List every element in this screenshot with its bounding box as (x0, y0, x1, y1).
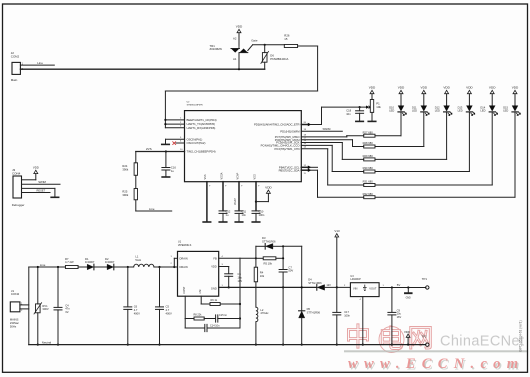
svg-text:D14: D14 (480, 105, 485, 109)
wire LED D13 cathode (375, 113, 469, 172)
wire Line from J2 pin2 to triac/D6 (20, 68, 264, 70)
svg-text:STTH1R06: STTH1R06 (262, 239, 276, 243)
svg-text:D3: D3 (262, 236, 266, 240)
svg-text:Line: Line (37, 61, 43, 65)
wire R4 to L2 (255, 282, 257, 307)
pin OSCOUT with red cross (172, 141, 184, 145)
pin name VSS vertical (204, 174, 207, 179)
svg-text:VDD: VDD (265, 185, 272, 189)
pin name VDD vertical (253, 174, 256, 179)
svg-text:LED: LED (435, 109, 440, 113)
svg-text:10u: 10u (397, 312, 402, 316)
wire J1 pins to rails (20, 267, 29, 345)
svg-text:LED: LED (389, 109, 394, 113)
svg-text:400V: 400V (134, 311, 140, 315)
svg-text:PC4(HS)/TIM1_CH4/CLK_CCO: PC4(HS)/TIM1_CH4/CLK_CCO (261, 144, 300, 148)
capacitor C16 (162, 152, 176, 178)
pin names U3 (353, 285, 377, 290)
wire triac A1 to Line wire (238, 53, 240, 71)
wire U3 output 5V (379, 283, 426, 288)
svg-text:Neutral: Neutral (42, 341, 52, 345)
wire U1 GND rail (219, 285, 317, 288)
svg-text:5V: 5V (397, 283, 401, 287)
resistor R26 (284, 34, 297, 48)
svg-text:ZVS: ZVS (146, 147, 152, 151)
net stub SWIM (301, 127, 342, 131)
svg-text:400V: 400V (166, 311, 172, 315)
svg-text:100n: 100n (344, 313, 350, 317)
svg-text:C11: C11 (242, 209, 247, 213)
svg-text:中: 中 (345, 322, 371, 352)
svg-text:SWIM: SWIM (323, 127, 331, 131)
svg-text:A1: A1 (233, 57, 237, 61)
wire ZVS corner (135, 152, 137, 163)
wire pin16 to R29 (301, 140, 363, 159)
svg-text:TIM2_CH1(BEEP/PD4): TIM2_CH1(BEEP/PD4) (187, 150, 216, 154)
pin name VDDA vertical (220, 172, 223, 179)
capacitor C7 (279, 265, 293, 345)
svg-text:Debugger: Debugger (12, 203, 25, 207)
svg-text:D13: D13 (458, 105, 463, 109)
svg-text:TP2: TP2 (422, 335, 428, 339)
watermark chinese characters 中电网 (345, 322, 434, 354)
transil D6 (261, 45, 289, 69)
svg-text:Main: Main (11, 78, 18, 82)
power flag VDD (triac A2) (236, 25, 243, 46)
svg-text:L4949CP: L4949CP (350, 278, 361, 281)
capacitor C5 (156, 267, 172, 346)
wire D2 to L1 (115, 266, 134, 268)
svg-text:STTH1R06: STTH1R06 (308, 281, 322, 285)
svg-text:VDD: VDD (33, 166, 39, 170)
svg-text:VDD: VDD (236, 25, 243, 29)
power flag VDD (LED D13) (466, 86, 473, 106)
svg-text:C12: C12 (226, 209, 231, 213)
svg-text:网: 网 (407, 323, 433, 353)
resistor R28 (363, 141, 375, 148)
svg-text:STM8S103F3P6: STM8S103F3P6 (187, 105, 204, 107)
wire U1 FB (219, 256, 240, 259)
svg-text:Gate: Gate (251, 39, 258, 43)
wire J3 pin1 to VDD (22, 166, 39, 180)
svg-text:12V: 12V (326, 284, 331, 287)
svg-text:C15 1n: C15 1n (219, 314, 228, 317)
svg-text:R30 680: R30 680 (363, 166, 374, 170)
svg-text:10k: 10k (376, 105, 381, 109)
triac TR1 (210, 44, 248, 53)
wire U1 bottom pin LIM (201, 296, 210, 304)
svg-text:VDD: VDD (398, 86, 405, 90)
svg-text:CON2: CON2 (11, 55, 20, 59)
capacitor C12 (219, 182, 231, 222)
svg-text:47n: 47n (65, 307, 70, 311)
svg-text:CONT: CONT (183, 286, 186, 294)
LED D14 (480, 105, 497, 115)
resistor R5 (256, 257, 283, 266)
svg-text:1N4007: 1N4007 (105, 260, 115, 264)
svg-text:VDD: VDD (466, 86, 473, 90)
svg-text:VDD: VDD (443, 86, 450, 90)
regulator U3 box (350, 275, 379, 296)
svg-text:GND: GND (406, 297, 411, 299)
wire ADC pin to potentiometer wiper (301, 106, 369, 127)
capacitor C4 (54, 266, 70, 346)
svg-text:MAINS: MAINS (10, 318, 19, 322)
wire L1 to U1 drain (154, 256, 178, 268)
power flag VDD (LED D10) (398, 86, 405, 106)
svg-text:C18: C18 (346, 109, 351, 113)
svg-text:VSS: VSS (204, 174, 207, 179)
svg-text:VOUT: VOUT (369, 286, 377, 290)
pin name VCAP vertical (236, 172, 239, 179)
power flag V13 (334, 229, 340, 288)
svg-text:DRAIN: DRAIN (180, 265, 188, 269)
wire J3 pin3 to ground (22, 188, 59, 197)
wire MCU pin3 UART1_RX (165, 125, 184, 127)
connector J1 CON2 mains (10, 289, 23, 329)
svg-text:Line: Line (40, 263, 46, 267)
label A2 (233, 37, 237, 41)
wire D3/R5 right junction (282, 245, 302, 269)
svg-text:R9 1k: R9 1k (211, 299, 218, 302)
svg-text:Z0109MN: Z0109MN (210, 47, 222, 51)
svg-text:STTH1R06: STTH1R06 (307, 310, 321, 314)
svg-text:VDD: VDD (421, 86, 428, 90)
power flag VDD (output) (404, 330, 410, 346)
svg-text:PB5(T)/I2C_SDA: PB5(T)/I2C_SDA (279, 168, 300, 172)
svg-text:D5: D5 (307, 307, 311, 311)
resistor R27 (363, 130, 375, 137)
power flag VDD (LED D15) (512, 86, 519, 106)
wire D1 to D2 (95, 266, 107, 268)
label A1 (233, 57, 237, 61)
svg-text:D15: D15 (503, 105, 508, 109)
svg-text:R28 680: R28 680 (363, 141, 374, 145)
svg-text:UART1_RX(AIN6/PD6): UART1_RX(AIN6/PD6) (187, 126, 216, 130)
wire VSS pin to ground (203, 182, 211, 222)
resistor R32 (363, 192, 375, 199)
wire between R24 R25 (135, 175, 137, 188)
SMPS IC U1 VIPer06 box (178, 241, 219, 297)
svg-text:10k: 10k (260, 274, 265, 278)
resistor R31 (363, 180, 375, 187)
wire R9 to FB node (220, 258, 241, 328)
svg-text:C5: C5 (166, 305, 170, 309)
capacitor C14 (series bottom) (185, 319, 240, 332)
svg-text:VDD: VDD (211, 265, 217, 269)
svg-text:C17: C17 (344, 310, 349, 314)
svg-text:VDD: VDD (512, 86, 519, 90)
svg-text:PC3(HS)/TIM1_CH3: PC3(HS)/TIM1_CH3 (274, 147, 300, 151)
svg-text:L2: L2 (260, 308, 263, 312)
potentiometer P1 (367, 100, 381, 113)
resistor R29 (363, 154, 375, 161)
wire LED D15 cathode (375, 113, 515, 198)
svg-text:R5 10k: R5 10k (264, 262, 273, 266)
svg-text:C7: C7 (288, 265, 292, 269)
svg-text:R8 22k: R8 22k (194, 314, 203, 317)
svg-text:15: 15 (284, 37, 288, 41)
svg-text:VDD: VDD (489, 86, 496, 90)
wire LED D12 cathode (375, 113, 447, 160)
svg-text:R25: R25 (122, 190, 127, 194)
svg-text:10n: 10n (346, 112, 351, 116)
wire P1 to ground (368, 112, 376, 121)
varistor RV1 (34, 266, 49, 346)
wire R7 to D1 (78, 266, 87, 268)
svg-text:VDD: VDD (369, 86, 376, 90)
wire J3 pin2 SWIM (22, 180, 61, 184)
svg-text:10n: 10n (242, 213, 247, 217)
wire LED D11 cathode (375, 113, 424, 147)
pin names OSC (187, 137, 206, 145)
svg-text:16V: 16V (397, 315, 402, 319)
svg-text:4.7: 4.7 (134, 308, 138, 312)
junction gate/D6 (264, 44, 266, 46)
power flag VDD (LED D14) (489, 86, 496, 106)
MCU U2 STM8S103F3P6 box (185, 102, 302, 182)
svg-text:LED: LED (480, 109, 485, 113)
power flag VDD (P1) (369, 86, 376, 100)
svg-text:R4: R4 (260, 271, 264, 275)
LED D11 (412, 105, 429, 115)
svg-text:VIPER06LS: VIPER06LS (178, 244, 192, 247)
capacitor C15 (series) (204, 314, 240, 322)
diode D5 STTH1R06 (299, 246, 321, 345)
power flag VDD (LED D12) (443, 86, 450, 106)
svg-text:230Vac: 230Vac (10, 321, 20, 325)
svg-text:D4: D4 (308, 278, 312, 282)
svg-text:D11: D11 (412, 105, 417, 109)
svg-text:470uH: 470uH (260, 311, 268, 315)
wire LED D14 cathode (375, 113, 492, 186)
svg-text:X2: X2 (65, 310, 69, 314)
test point TP1 (422, 277, 429, 289)
wire I2C_SDA pin to R32 (301, 168, 363, 197)
capacitor C9 (388, 286, 402, 345)
LED D10 (389, 105, 406, 115)
svg-text:SWIM: SWIM (38, 180, 46, 184)
svg-text:50V: 50V (288, 269, 293, 273)
svg-text:V13: V13 (334, 229, 340, 233)
svg-text:C10: C10 (259, 209, 264, 213)
connector J2 CON2 (Main line input) (11, 51, 24, 82)
svg-text:LED: LED (458, 109, 463, 113)
svg-text:R31 680: R31 680 (363, 180, 374, 184)
svg-text:1u: 1u (171, 169, 174, 173)
LED D13 (458, 105, 475, 115)
svg-text:w w w . E C C N . c o m: w w w . E C C N . c o m (348, 356, 518, 372)
wire OSCIN to ground (162, 137, 185, 144)
wire J3 pin4 RESET (22, 188, 51, 192)
wire MCU pin2 UART1_TX (164, 122, 184, 125)
resistor R8 (185, 314, 204, 320)
wire U3 GND to rail (360, 297, 364, 346)
svg-text:PD3(HS)/AIN4/TIM2_CH2/ADC_ETR: PD3(HS)/AIN4/TIM2_CH2/ADC_ETR (254, 123, 300, 127)
svg-text:VCAP: VCAP (236, 172, 239, 179)
svg-text:L1: L1 (135, 255, 138, 259)
capacitor C18 (346, 106, 363, 121)
resistor R4 (254, 267, 265, 282)
svg-text:100n: 100n (259, 213, 265, 217)
svg-text:VDDA: VDDA (220, 172, 223, 179)
connector J3 CON4 (SWIM debugger) (12, 168, 25, 207)
svg-text:R29 680: R29 680 (363, 154, 374, 158)
resistor R24 (122, 163, 137, 176)
svg-text:FB: FB (213, 256, 217, 260)
wire MCU pin1 UART1_CK (164, 118, 184, 121)
capacitor C17 (333, 287, 351, 345)
svg-text:CON4: CON4 (12, 171, 21, 175)
wire pin15 to R30 (301, 143, 363, 171)
svg-text:R32 680: R32 680 (363, 192, 374, 196)
net label Line (J2 pin1) (20, 61, 54, 65)
wire U1 VDD to C8 (219, 264, 229, 267)
wire mains line rail (29, 266, 66, 268)
svg-text:LED: LED (503, 109, 508, 113)
svg-text:C9: C9 (397, 308, 401, 312)
svg-text:RV1: RV1 (42, 304, 48, 308)
wire LED D10 cathode (375, 113, 401, 136)
svg-text:PD1(HS)/SWIM: PD1(HS)/SWIM (280, 129, 300, 133)
svg-text:GND: GND (211, 286, 217, 290)
diode D4 STTH1R06 (308, 278, 331, 291)
svg-text:1N4007: 1N4007 (85, 260, 95, 264)
resistor R30 (363, 166, 375, 173)
resistor R25 (122, 189, 137, 200)
net stub I2C_SCL (301, 165, 317, 169)
wire D4 to U3 (325, 285, 351, 287)
bottom neutral rail (29, 341, 426, 345)
svg-text:LIM: LIM (199, 290, 202, 294)
wire U1 bottom pin CONT (184, 296, 186, 318)
svg-text:C8: C8 (238, 272, 242, 276)
svg-text:D2: D2 (105, 257, 109, 261)
svg-text:CON2: CON2 (11, 292, 20, 296)
wire pin14 to R31 (301, 147, 363, 186)
LED D15 (503, 105, 520, 115)
diode D3 STTH1R06 (262, 236, 283, 249)
svg-text:50Hz: 50Hz (10, 324, 17, 328)
svg-text:P6SMB440CA: P6SMB440CA (270, 57, 288, 61)
wire pin17 to R28 (301, 138, 363, 147)
pin names right (254, 123, 300, 173)
svg-text:R24: R24 (122, 164, 127, 168)
svg-text:D1: D1 (85, 257, 89, 261)
svg-text:LED: LED (412, 109, 417, 113)
diode D2 1N4007 (105, 257, 115, 270)
svg-text:D12: D12 (435, 105, 440, 109)
power flag VDD (LED D11) (421, 86, 428, 106)
wire ZVS to TIM2 pin (136, 147, 185, 152)
svg-text:GIPD-05214-61 (ver1): GIPD-05214-61 (ver1) (519, 320, 523, 352)
svg-text:D10: D10 (389, 105, 394, 109)
capacitor C6 (124, 267, 140, 346)
svg-text:A2: A2 (233, 37, 237, 41)
svg-text:Line: Line (149, 207, 155, 211)
svg-text:OSCOUT(PA2): OSCOUT(PA2) (187, 141, 206, 145)
svg-text:300V: 300V (42, 307, 48, 311)
svg-text:VCAP: VCAP (234, 198, 237, 205)
capacitor C10 and VDD flag (252, 182, 272, 222)
wire FB up node (240, 257, 257, 259)
svg-text:ChinaECNet: ChinaECNet (440, 334, 524, 350)
svg-text:C16: C16 (171, 166, 176, 170)
svg-text:5mH: 5mH (135, 258, 141, 262)
svg-text:C14 10n: C14 10n (210, 325, 220, 328)
test point TP2 (422, 335, 429, 347)
svg-text:4.7 2W: 4.7 2W (65, 260, 74, 264)
wire pin18 to R27 (301, 135, 363, 137)
watermark bar (344, 350, 528, 352)
svg-text:VIN: VIN (353, 286, 357, 290)
pin name TIM2 (187, 150, 216, 154)
inductor L2 (256, 307, 268, 322)
net stub Line (ZVS bottom) (136, 200, 172, 211)
svg-text:C6: C6 (134, 305, 138, 309)
svg-text:4.7: 4.7 (166, 308, 170, 312)
resistor R9 (210, 299, 220, 305)
svg-text:C4: C4 (65, 303, 69, 307)
svg-text:390k: 390k (122, 193, 128, 197)
svg-text:TP1: TP1 (422, 277, 428, 281)
wire L2 to rail (255, 322, 257, 346)
capacitor C11 (234, 182, 247, 222)
svg-text:VDD: VDD (404, 330, 410, 334)
capacitor C8 (225, 267, 243, 289)
diode D1 1N4007 (85, 257, 95, 270)
svg-text:R7: R7 (65, 257, 69, 261)
svg-text:VDD: VDD (253, 174, 256, 179)
pin names U1 (180, 256, 217, 294)
resistor R7 (65, 257, 78, 269)
inductor L1 (134, 255, 154, 267)
LED D12 (435, 105, 452, 115)
svg-text:R27 680: R27 680 (363, 130, 374, 134)
wire R26 to MCU UART pins (165, 46, 317, 128)
svg-text:RESET: RESET (37, 188, 46, 192)
net label Line (mains) (40, 263, 46, 267)
svg-text:DRAIN: DRAIN (180, 256, 188, 260)
wire triac gate (248, 39, 284, 51)
wire D3 branch (256, 246, 265, 267)
ground at 5V rail (405, 286, 412, 299)
svg-text:390k: 390k (122, 167, 128, 171)
pin names UART (187, 118, 217, 130)
